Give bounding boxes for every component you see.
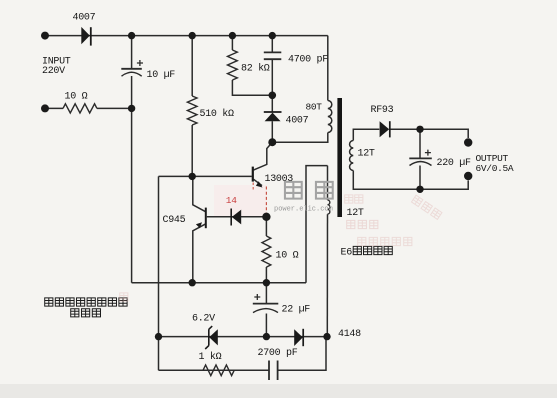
wire lowest rail left xyxy=(159,369,270,371)
zener 6.2V xyxy=(205,326,218,349)
node 510k top xyxy=(189,32,196,39)
svg-text:510 kΩ: 510 kΩ xyxy=(200,108,235,120)
resistor 82k xyxy=(227,50,237,80)
wire secondary top right xyxy=(390,129,468,138)
wire input bottom right xyxy=(97,107,132,109)
wire primary bottom to node B xyxy=(272,133,328,143)
wire bulk cap branch upper xyxy=(131,36,133,69)
node Q2 emitter rail xyxy=(189,279,196,286)
highlight box around sense diode xyxy=(214,185,267,217)
node base junction xyxy=(189,173,196,180)
wire Q2 collector xyxy=(193,176,206,211)
wire bulk cap branch lower xyxy=(131,76,133,283)
svg-text:4007: 4007 xyxy=(286,116,309,127)
svg-text:80T: 80T xyxy=(306,101,323,112)
svg-text:10 Ω: 10 Ω xyxy=(65,91,88,102)
capacitor 4700pF plates xyxy=(264,52,282,59)
node input top xyxy=(41,32,49,40)
svg-text:4148: 4148 xyxy=(338,329,361,340)
wire primary top drop xyxy=(327,36,329,101)
transformer core xyxy=(337,98,342,217)
svg-text:4700 pF: 4700 pF xyxy=(288,55,328,66)
svg-text:1 kΩ: 1 kΩ xyxy=(199,351,222,363)
wire secondary top xyxy=(353,129,379,140)
node 22uF bottom xyxy=(263,333,270,340)
secondary winding 12T coil xyxy=(350,141,354,171)
diode RF93 xyxy=(380,121,390,137)
resistor R input 10 ohm xyxy=(63,104,97,113)
wire 510k top lead xyxy=(191,36,193,96)
label chinese title line2 xyxy=(71,309,101,317)
node input bottom xyxy=(41,104,49,112)
watermark pink diagonal xyxy=(411,195,441,219)
watermark pink row A xyxy=(347,220,378,228)
output terminal minus xyxy=(464,172,472,180)
wire bottom rail xyxy=(159,336,328,338)
wire node C to emitter resistor xyxy=(265,217,267,236)
bottom gray band xyxy=(0,384,557,398)
feedback winding coil xyxy=(328,200,330,214)
svg-text:14: 14 xyxy=(226,195,237,206)
node C emitter sense xyxy=(262,213,270,221)
svg-text:220 µF: 220 µF xyxy=(437,158,472,169)
label chinese title line1 xyxy=(45,298,127,306)
primary winding 80T coil xyxy=(328,101,332,133)
red dashed emitter link xyxy=(265,187,267,216)
node bulk cap top xyxy=(128,32,135,39)
resistor emitter 10 ohm xyxy=(262,236,271,267)
svg-text:12T: 12T xyxy=(347,208,364,219)
wire 220uF bottom lead xyxy=(419,166,421,190)
wire feedback winding bottom lead xyxy=(326,214,328,336)
node A snubber bottom xyxy=(269,92,277,100)
svg-text:6.2V: 6.2V xyxy=(192,314,215,325)
diode D3 sense xyxy=(231,209,241,226)
wire 220uF top lead xyxy=(419,129,421,158)
transistor Q1 13003 xyxy=(253,167,263,188)
resistor 510k xyxy=(187,96,197,125)
wire clamp diode to node B xyxy=(271,121,273,142)
wire node A to clamp diode xyxy=(271,95,273,112)
diode D1 4007 input xyxy=(81,27,91,46)
watermark big gray glyphs xyxy=(285,182,302,199)
wire feedback winding top lead xyxy=(327,166,329,200)
resistor 1k xyxy=(203,365,234,376)
wire emitter resistor to rail xyxy=(265,267,267,283)
wire emitter rail xyxy=(132,282,306,284)
wire top rail xyxy=(45,35,328,37)
watermark pink row B xyxy=(358,237,412,245)
svg-text:22 µF: 22 µF xyxy=(282,305,311,316)
node emitter resistor rail xyxy=(263,279,270,286)
wire Q1 emitter diagonal xyxy=(254,179,262,185)
diode D2 4007 clamp xyxy=(264,112,282,121)
red dashed corner mark xyxy=(252,183,254,191)
wire 22uF to bottom rail xyxy=(265,314,267,337)
node 10ohm to bulk xyxy=(128,105,135,112)
diode 4148 xyxy=(294,329,303,346)
watermark pink small pair xyxy=(345,195,363,203)
svg-text:10 µF: 10 µF xyxy=(147,70,176,81)
wire secondary bottom xyxy=(353,171,468,190)
wire base line of Q1 xyxy=(159,175,252,177)
svg-text:2700 pF: 2700 pF xyxy=(258,348,298,359)
wire 4700p top lead xyxy=(271,36,273,53)
node 4700p top xyxy=(269,32,276,39)
svg-text:4007: 4007 xyxy=(73,12,96,23)
svg-text:13003: 13003 xyxy=(265,174,294,185)
output terminal plus xyxy=(464,138,472,146)
capacitor 2700pF plates xyxy=(269,361,278,381)
node 82k top xyxy=(229,32,236,39)
svg-text:220V: 220V xyxy=(42,66,65,77)
node zener left xyxy=(155,333,162,340)
svg-text:C945: C945 xyxy=(163,215,186,226)
wire 82k top lead xyxy=(231,36,233,50)
svg-text:power.elic.com: power.elic.com xyxy=(274,206,333,214)
transistor Q2 C945 xyxy=(196,208,206,229)
node secondary top xyxy=(416,126,423,133)
wire lowest rail right xyxy=(278,337,326,371)
capacitor 10uF plates xyxy=(121,60,143,76)
svg-text:RF93: RF93 xyxy=(371,105,394,116)
wire Q2 base line through sense diode xyxy=(207,216,267,218)
capacitor 220uF plates xyxy=(409,150,432,166)
node B collector xyxy=(268,138,276,146)
svg-text:82 kΩ: 82 kΩ xyxy=(241,62,270,74)
capacitor 22uF plates xyxy=(253,294,278,313)
wire collector of Q1 xyxy=(254,142,273,170)
svg-text:12T: 12T xyxy=(358,148,375,159)
wire feedback winding left side xyxy=(306,166,328,283)
wire Q2 emitter xyxy=(193,224,206,283)
svg-text:10 Ω: 10 Ω xyxy=(276,250,299,261)
node secondary bottom xyxy=(416,186,423,193)
wire 4700p bottom lead xyxy=(271,60,273,96)
wire input bottom left xyxy=(45,107,63,109)
watermark pink speck left xyxy=(120,293,128,301)
wire rail to 22uF xyxy=(265,283,267,303)
wire 510k bottom lead xyxy=(191,125,193,176)
wire left feedback riser xyxy=(158,176,160,370)
svg-text:E6: E6 xyxy=(341,248,353,259)
node feedback bottom xyxy=(323,333,330,340)
svg-text:6V/0.5A: 6V/0.5A xyxy=(476,163,514,174)
wire 82k bottom lead xyxy=(232,80,272,95)
